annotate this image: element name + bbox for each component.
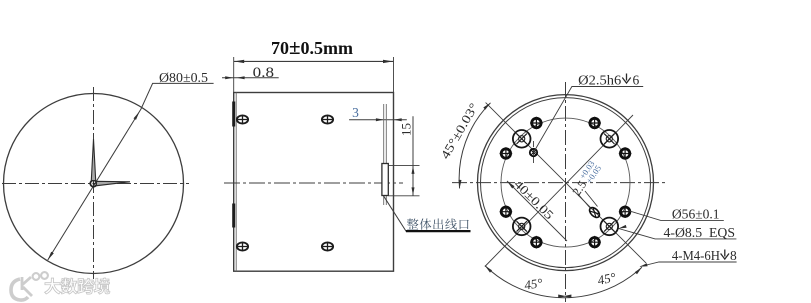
- screw M4 #3: [500, 205, 513, 218]
- right view horizontal centerline: [452, 182, 668, 184]
- svg-text:Ø80±0.5: Ø80±0.5: [159, 70, 208, 85]
- label 2.5 +0.03 +0.05: [568, 159, 603, 199]
- left view horizontal centerline: [2, 183, 189, 185]
- pointer needle up: [91, 139, 95, 181]
- svg-text:4-Ø8.5 EQS: 4-Ø8.5 EQS: [664, 225, 736, 240]
- svg-text:Ø2.5h6: Ø2.5h6: [578, 73, 621, 88]
- screw M4 #6: [588, 117, 601, 130]
- outlet box: [382, 164, 388, 196]
- middle view body rectangle: [234, 93, 394, 272]
- hole Ø8.5 NE: [601, 130, 619, 148]
- leader ticks to pin SE: [578, 191, 598, 209]
- hole Ø8.5 SW: [513, 218, 531, 236]
- right view outer circle: [478, 95, 654, 271]
- diagonal NE-SW: [485, 115, 633, 267]
- right view inner circle: [481, 98, 651, 268]
- pin hole Ø2.5 NW: [530, 141, 537, 164]
- left edge dark segments: [232, 102, 235, 228]
- right view vertical centerline: [565, 82, 567, 302]
- leader 整体出线口: [384, 196, 471, 231]
- pointer needle right: [97, 181, 131, 185]
- screw M4 #4: [619, 205, 632, 218]
- screw M4 #8: [588, 236, 601, 249]
- svg-text:45°: 45°: [523, 275, 543, 292]
- pin hole Ø2.5 SE: [588, 206, 602, 220]
- bottom 45° arcs: [485, 266, 642, 298]
- watermark logo K100: [11, 272, 48, 300]
- dimension line 70mm: [234, 60, 394, 62]
- extension lines 70mm: [234, 57, 394, 93]
- dimension 0.8 leader: [222, 77, 279, 79]
- screw M4 #2: [619, 147, 632, 160]
- screw S4: [322, 242, 333, 250]
- center hub circle: [90, 180, 96, 186]
- left view vertical centerline: [93, 87, 95, 279]
- hole Ø8.5 SE: [601, 218, 619, 236]
- flange line 0.8: [235, 93, 237, 272]
- dimension line 15: [412, 116, 414, 196]
- svg-text:4-M4-6H: 4-M4-6H: [672, 248, 720, 263]
- screw M4 #5: [530, 117, 543, 130]
- screw S3: [237, 242, 248, 250]
- bolt circle through M4 screws: [501, 118, 630, 247]
- svg-text:6: 6: [633, 73, 640, 88]
- extension lines 15: [389, 165, 420, 195]
- left view outer circle: [4, 94, 184, 274]
- svg-text:8: 8: [730, 248, 737, 263]
- arc 45°±0.03°: [459, 103, 490, 189]
- diagonal NW-SE: [486, 103, 646, 264]
- svg-text:0.8: 0.8: [253, 65, 274, 81]
- screw M4 #7: [530, 236, 543, 249]
- svg-text:70±0.5mm: 70±0.5mm: [271, 35, 353, 59]
- dimension line Ø80 diagonal: [48, 83, 214, 260]
- label 整体出线口: [407, 218, 469, 229]
- svg-text:3: 3: [352, 105, 359, 120]
- screw M4 #1: [500, 147, 513, 160]
- screw S2: [322, 115, 333, 123]
- middle view centerline: [224, 182, 403, 184]
- dimension 40±0.05: [507, 181, 567, 241]
- screw S1: [237, 115, 248, 123]
- svg-text:15: 15: [399, 123, 414, 136]
- watermark text 大数跨境: [45, 278, 110, 294]
- outlet channel lines: [384, 104, 387, 205]
- hole Ø8.5 NW: [513, 130, 531, 148]
- svg-text:Ø56±0.1: Ø56±0.1: [672, 207, 720, 222]
- dimension 3 line: [349, 119, 407, 121]
